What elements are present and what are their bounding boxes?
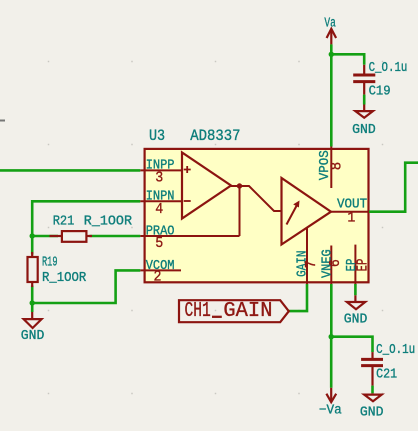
pin 8 VPOS line <box>330 147 332 189</box>
ground symbol EP <box>347 295 365 309</box>
wire VNEG to -Va <box>330 337 333 388</box>
wire Va to VPOS <box>330 44 333 146</box>
pin EP line <box>354 245 356 285</box>
minus sign <box>184 200 191 202</box>
amplifier triangle 2 <box>282 178 332 245</box>
svg-text:GND: GND <box>344 312 368 327</box>
wire to GND symbol <box>31 303 34 312</box>
wire INPP from left edge <box>0 169 140 172</box>
svg-text:4: 4 <box>155 202 163 218</box>
svg-text:R_1OOR: R_1OOR <box>42 271 86 286</box>
capacitor C21 <box>361 352 383 386</box>
capacitor C19 <box>353 65 375 95</box>
resistor R21 <box>50 231 93 242</box>
svg-text:GND: GND <box>360 406 384 421</box>
wire C21 to GND <box>371 386 374 394</box>
svg-text:R19: R19 <box>42 256 58 271</box>
svg-text:6: 6 <box>328 259 344 267</box>
pin 1 VOUT line <box>331 211 370 213</box>
wire VNEG to C21 <box>331 337 372 352</box>
amplifier triangle 1 <box>182 153 231 219</box>
svg-text:R21: R21 <box>53 215 75 230</box>
wire VCOM <box>32 270 140 303</box>
op-amp U3 AD8337 <box>140 147 371 286</box>
junction node Va <box>329 52 334 57</box>
pin 4 INPN line <box>140 200 182 202</box>
svg-text:Va: Va <box>324 16 336 31</box>
sheet border tick <box>0 120 5 122</box>
svg-text:EP: EP <box>356 259 372 272</box>
ground symbol C19 <box>355 105 373 118</box>
pin 6 VNEG line <box>330 246 332 285</box>
plus sign <box>184 166 191 173</box>
svg-text:8: 8 <box>330 162 346 170</box>
svg-text:GND: GND <box>352 123 376 138</box>
svg-text:AD8337: AD8337 <box>190 127 240 145</box>
junction node at R21/R19 <box>30 233 35 238</box>
wire INPN to R network <box>32 201 140 236</box>
hierarchical label CH1_GAIN <box>179 300 289 323</box>
internal wire to PRAO <box>239 186 241 236</box>
body <box>145 149 369 282</box>
wire Va to C19 <box>331 54 364 65</box>
wire VOUT out <box>369 163 418 212</box>
pin 2 VCOM line <box>140 269 181 271</box>
gain arrow <box>287 201 300 225</box>
svg-text:1: 1 <box>347 210 355 226</box>
wire R21 to PRAO <box>90 235 141 238</box>
junction node above GND <box>30 300 35 305</box>
resistor R19 <box>28 252 38 287</box>
svg-text:C21: C21 <box>376 368 397 383</box>
wire EP to GND <box>354 284 357 295</box>
svg-text:C19: C19 <box>369 84 391 99</box>
wire junction to R19 <box>31 236 34 255</box>
ground symbol lower-left <box>24 312 42 328</box>
power symbol Va <box>327 29 337 45</box>
internal junction dot <box>237 183 242 188</box>
wire VNEG down <box>330 284 333 337</box>
pin 5 PRAO line <box>140 235 239 237</box>
pin 3 INPP line <box>140 169 182 171</box>
ground symbol C21 <box>364 393 382 401</box>
pin 7 GAIN line <box>306 228 308 285</box>
svg-text:GAIN: GAIN <box>223 300 272 323</box>
svg-text:2: 2 <box>154 270 162 286</box>
power symbol -Va <box>326 388 336 402</box>
svg-text:C_O.1u: C_O.1u <box>376 343 415 358</box>
junction node VNEG <box>329 334 334 339</box>
svg-text:CH1: CH1 <box>185 300 211 323</box>
wire GAIN to label <box>289 284 307 311</box>
svg-text:C_O.1u: C_O.1u <box>369 61 408 76</box>
svg-text:7: 7 <box>304 260 320 268</box>
wire R19 to ground node <box>31 286 34 304</box>
svg-text:U3: U3 <box>149 127 165 145</box>
svg-text:5: 5 <box>155 236 163 252</box>
svg-text:R_1OOR: R_1OOR <box>84 215 132 230</box>
internal wire tri1 out <box>231 186 282 211</box>
wire junction to R21 <box>32 235 58 238</box>
svg-text:3: 3 <box>155 170 163 186</box>
wire C19 to GND <box>363 95 366 105</box>
svg-text:−Va: −Va <box>319 403 342 418</box>
svg-text:GND: GND <box>21 329 45 344</box>
